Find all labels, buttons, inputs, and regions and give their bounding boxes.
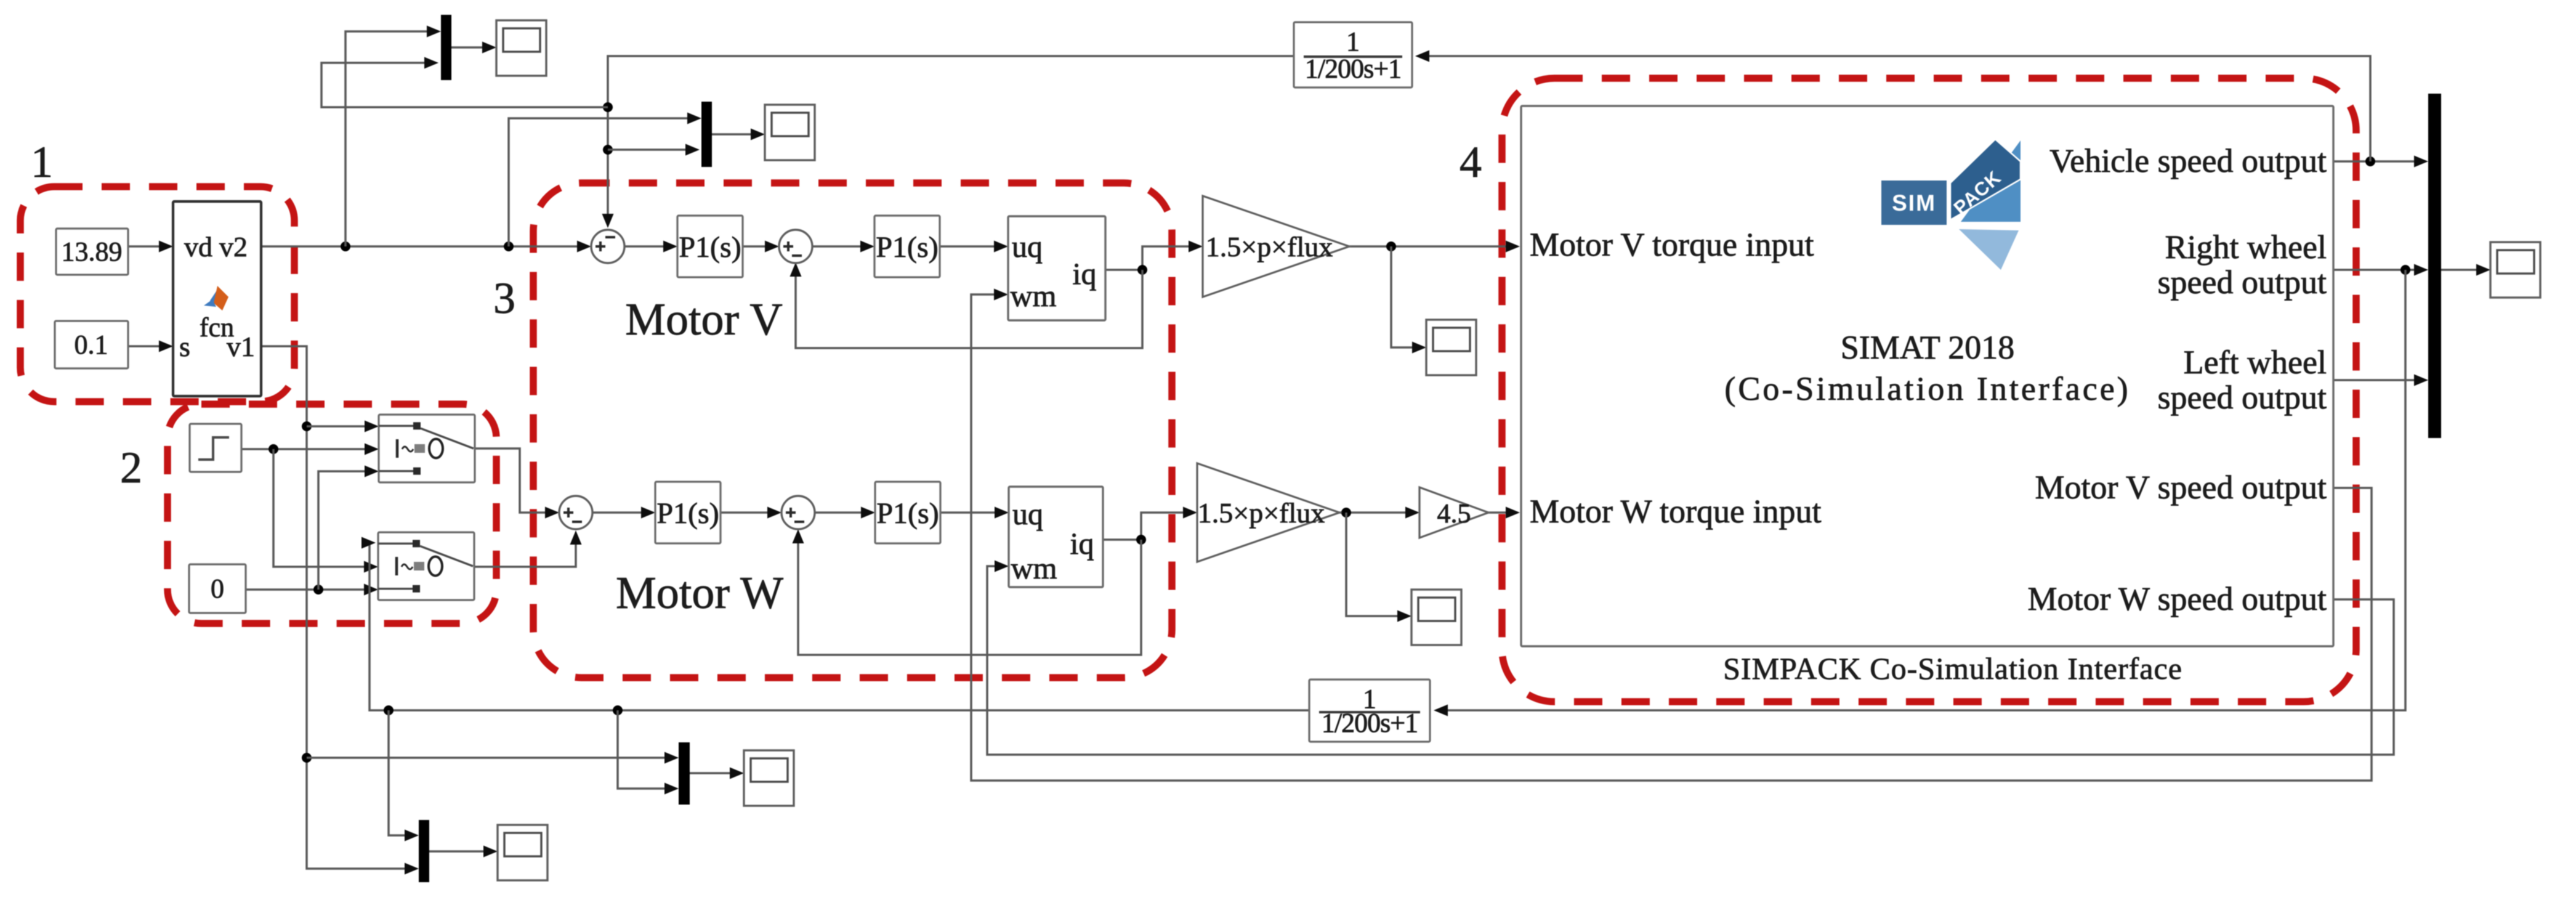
- svg-text:P1(s): P1(s): [876, 231, 938, 264]
- svg-text:Motor W speed output: Motor W speed output: [2028, 580, 2327, 617]
- wire step branch to switch2 input 2: [273, 449, 371, 567]
- gain block 4.5: [1419, 487, 1488, 538]
- wire branch to mux3 input 1: [389, 710, 407, 835]
- svg-text:SIMAT 2018: SIMAT 2018: [1841, 329, 2015, 366]
- svg-text:iq: iq: [1073, 256, 1097, 291]
- junction feedback to mux1: [603, 102, 613, 112]
- wire mux3 to scope5: [429, 850, 493, 853]
- junction v2 branch to mux2: [504, 241, 514, 251]
- svg-text:0: 0: [211, 574, 224, 604]
- wire 0.1 to fcn s: [128, 345, 166, 347]
- transfer block P1(s) motor V outer: [677, 216, 743, 277]
- mux block bottom left: [419, 820, 429, 882]
- svg-text:1: 1: [1346, 26, 1360, 57]
- port label Right wheel speed output: [2158, 229, 2327, 301]
- wire transfer fcn W output to switch2: [369, 545, 1309, 710]
- junction motor V iq feedback: [1137, 265, 1147, 275]
- wire gain 4.5 to torque input port: [1488, 511, 1511, 514]
- scope block top left: [496, 20, 546, 76]
- svg-text:4: 4: [1460, 137, 1482, 187]
- svg-text:Motor W: Motor W: [616, 568, 783, 619]
- wire transfer fcn output to sum1 top: [608, 56, 1294, 219]
- wire P1(s) V2 to motor block V uq: [940, 245, 1001, 248]
- svg-text:wm: wm: [1011, 551, 1057, 585]
- scope block bottom left: [498, 825, 547, 880]
- svg-text:speed output: speed output: [2158, 264, 2327, 301]
- switch block 2: [378, 532, 474, 600]
- svg-text:1.5×p×flux: 1.5×p×flux: [1206, 231, 1333, 262]
- junction to mux3: [384, 705, 394, 715]
- mux block second: [701, 102, 712, 167]
- switch block 1: [379, 415, 475, 482]
- sum junction motor V inner: [779, 230, 812, 263]
- svg-text:(Co-Simulation Interface): (Co-Simulation Interface): [1724, 370, 2130, 407]
- scope block torque W: [1411, 590, 1461, 645]
- svg-text:1: 1: [31, 137, 53, 187]
- wire branch to mux4 input 2: [618, 710, 671, 789]
- scope block second: [765, 105, 815, 160]
- junction motor W iq feedback: [1136, 535, 1146, 545]
- MATLAB function block: [173, 201, 261, 396]
- motor block V uq iq wm: [1008, 216, 1105, 320]
- wire vehicle speed output to mux: [2333, 160, 2417, 163]
- junction v2 branch to mux1: [341, 241, 350, 251]
- mux block top left: [441, 15, 451, 80]
- svg-text:P1(s): P1(s): [656, 497, 719, 530]
- wire v1 branch to mux4 input 1: [307, 757, 671, 759]
- port label Motor V torque input: [1530, 226, 1814, 263]
- wire motor W iq to gain: [1103, 513, 1190, 540]
- step block: [190, 424, 241, 472]
- wire feedback branch to mux1 input 2: [321, 63, 608, 107]
- port label Motor V speed output: [2035, 469, 2327, 506]
- region label 4: [1460, 137, 1482, 187]
- svg-text:v2: v2: [219, 231, 248, 262]
- region label 2: [120, 443, 142, 492]
- junction step branch: [269, 444, 278, 454]
- wire motor V iq to gain: [1105, 246, 1190, 270]
- constant block 13.89: [56, 229, 128, 275]
- wire feedback branch to mux2 input 2: [608, 148, 695, 151]
- wire mux4 to scope7: [690, 772, 739, 774]
- junction to mux4: [613, 705, 623, 715]
- SIMPACK logo: [1881, 139, 2021, 270]
- svg-text:1.5×p×flux: 1.5×p×flux: [1198, 497, 1325, 529]
- wire vehicle speed up to transfer fcn: [1420, 56, 2370, 161]
- wire sum4 to P1(s) W2: [815, 511, 867, 514]
- junction vehicle speed feedback tap: [2365, 156, 2375, 166]
- wire constant 0 to switch2 input 3: [246, 588, 371, 591]
- motor block W uq iq wm: [1009, 487, 1103, 587]
- region 2 dashed boundary: [168, 404, 496, 623]
- wire sum2 to P1(s) V2: [812, 245, 867, 248]
- wire v1 output down left side: [261, 346, 407, 869]
- port label Left wheel speed output: [2158, 344, 2327, 416]
- junction right wheel feedback tap: [2400, 265, 2410, 275]
- transfer fcn 1/(1/200s+1) bottom: [1309, 680, 1430, 742]
- transfer block P1(s) motor W inner: [875, 482, 940, 543]
- wire motor W speed to wm: [987, 566, 2394, 755]
- wire P1(s) V1 to sum2: [743, 245, 772, 248]
- gain block 1.5xpxflux motor V: [1203, 196, 1349, 297]
- wire v2 output to sum1: [261, 245, 584, 248]
- svg-text:3: 3: [493, 274, 515, 323]
- svg-text:Motor V torque input: Motor V torque input: [1530, 226, 1814, 263]
- svg-text:uq: uq: [1012, 229, 1043, 264]
- sum junction motor W inner: [781, 496, 815, 529]
- scope block torque V: [1426, 320, 1476, 375]
- svg-text:1/200s+1: 1/200s+1: [1322, 708, 1418, 738]
- scope block right: [2490, 242, 2540, 298]
- wire right wheel speed to mux: [2333, 269, 2417, 271]
- svg-text:P1(s): P1(s): [876, 497, 939, 530]
- label Co-Simulation Interface: [1724, 370, 2130, 407]
- wire v2 branch to mux2 input 1: [509, 118, 695, 246]
- mux block bottom middle: [679, 742, 690, 805]
- label Motor W: [616, 568, 783, 619]
- svg-text:wm: wm: [1011, 278, 1057, 313]
- region 1 dashed boundary: [20, 187, 294, 402]
- svg-text:speed output: speed output: [2158, 379, 2327, 416]
- wire left wheel speed to mux: [2333, 379, 2417, 381]
- wire tap to scope4: [1346, 513, 1404, 616]
- block name SIMPACK Co-Simulation Interface: [1723, 651, 2182, 686]
- svg-text:1/200s+1: 1/200s+1: [1305, 54, 1401, 84]
- transfer block P1(s) motor W outer: [655, 482, 721, 543]
- wire mux5 to scope6: [2441, 269, 2485, 271]
- wire v2 branch up to mux1 input 1: [345, 31, 434, 246]
- SIMPACK co-simulation block: [1521, 106, 2333, 646]
- svg-text:Vehicle speed output: Vehicle speed output: [2049, 142, 2327, 179]
- wire motor W current feedback loop: [798, 534, 1141, 655]
- sum junction motor W outer: [559, 496, 592, 529]
- junction 0 branch: [313, 585, 323, 594]
- label Motor V: [625, 294, 783, 345]
- svg-text:iq: iq: [1070, 526, 1094, 561]
- svg-text:P1(s): P1(s): [679, 231, 741, 264]
- junction v1 to mux4: [302, 753, 312, 763]
- wire sum1 to P1(s) V1: [624, 245, 670, 248]
- svg-text:2: 2: [120, 443, 142, 492]
- wire gain V to torque input port: [1349, 245, 1511, 248]
- wire P1(s) W1 to sum4: [721, 511, 774, 514]
- wire v1 branch to switch1 input 1: [307, 425, 371, 428]
- region 4 dashed boundary: [1502, 78, 2356, 702]
- junction v1 to switch1: [302, 421, 312, 431]
- port label Motor W speed output: [2028, 580, 2327, 617]
- wire 0 branch to switch1 input 3: [318, 471, 371, 590]
- wire step to switch1 input 2: [241, 448, 371, 450]
- region 3 dashed boundary: [533, 183, 1172, 678]
- svg-text:13.89: 13.89: [62, 237, 123, 267]
- svg-text:vd: vd: [184, 231, 212, 262]
- svg-text:s: s: [179, 331, 190, 362]
- wire right wheel down to transfer fcn W: [1437, 270, 2405, 710]
- svg-text:0.1: 0.1: [75, 330, 108, 360]
- svg-text:Right wheel: Right wheel: [2165, 229, 2327, 266]
- svg-text:SIM: SIM: [1892, 190, 1936, 216]
- junction torque V scope tap: [1386, 241, 1396, 251]
- wire tap to scope3: [1391, 246, 1419, 347]
- svg-text:SIMPACK Co-Simulation Interfac: SIMPACK Co-Simulation Interface: [1723, 651, 2182, 686]
- svg-text:Motor W torque input: Motor W torque input: [1530, 493, 1821, 530]
- scope block bottom middle: [744, 750, 794, 806]
- wire switch2 to sum3 bottom: [474, 543, 576, 567]
- wire mux1 to scope1: [451, 46, 491, 49]
- wire sum3 to P1(s) W1: [592, 511, 647, 514]
- wire 13.89 to fcn vd: [128, 245, 166, 248]
- sum junction motor V outer: [591, 230, 624, 263]
- junction feedback to mux2: [603, 145, 613, 155]
- port label Vehicle speed output: [2049, 142, 2327, 179]
- constant block 0: [189, 564, 246, 613]
- junction torque W scope tap: [1341, 508, 1351, 517]
- svg-text:Motor V: Motor V: [625, 294, 783, 345]
- transfer block P1(s) motor V inner: [874, 216, 940, 277]
- wire switch1 to sum3: [475, 448, 552, 513]
- region label 1: [31, 137, 53, 187]
- wire motor V current feedback loop: [796, 267, 1142, 348]
- wire P1(s) W2 to motor block W uq: [940, 511, 1001, 514]
- region label 3: [493, 274, 515, 323]
- constant block 0.1: [55, 321, 128, 368]
- wire mux2 to scope2: [712, 133, 760, 136]
- svg-text:uq: uq: [1012, 497, 1043, 531]
- svg-text:4.5: 4.5: [1437, 498, 1471, 529]
- wire motor V speed to wm: [971, 294, 2372, 781]
- transfer fcn 1/(1/200s+1) top: [1294, 22, 1412, 87]
- port label Motor W torque input: [1530, 493, 1821, 530]
- wire gain W to gain 4.5: [1339, 511, 1412, 514]
- label SIMAT 2018: [1841, 329, 2015, 366]
- svg-text:v1: v1: [227, 331, 255, 362]
- svg-text:Motor V speed output: Motor V speed output: [2035, 469, 2327, 506]
- svg-text:Left wheel: Left wheel: [2184, 344, 2327, 381]
- mux block outputs right: [2428, 94, 2441, 438]
- gain block 1.5xpxflux motor W: [1197, 463, 1339, 562]
